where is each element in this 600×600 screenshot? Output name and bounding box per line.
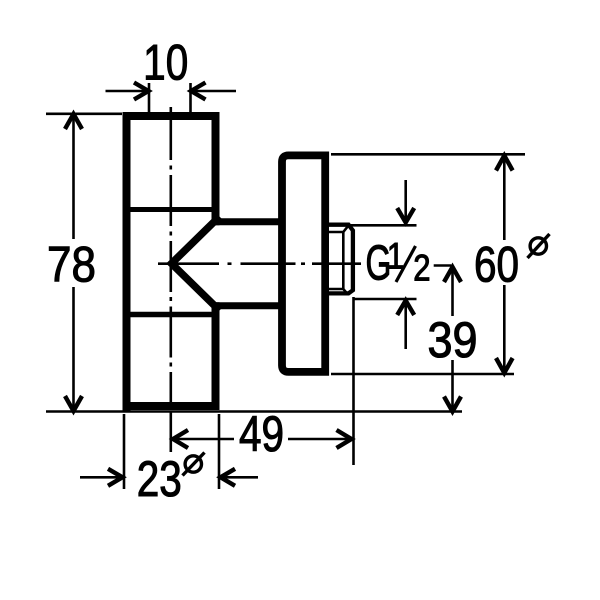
lower partition line — [123, 312, 212, 318]
dimension 10: left arrow — [106, 90, 149, 93]
horizontal centerline — [158, 264, 451, 266]
branch top edge — [212, 218, 284, 225]
dimension 23: right arrow — [221, 476, 259, 479]
thread dimension: bottom extension line — [353, 298, 417, 301]
bottom long extension line — [46, 410, 462, 413]
threaded spigot outline — [329, 225, 353, 294]
valve body right edge lower segment — [212, 302, 220, 410]
valve body right edge upper segment — [212, 112, 220, 225]
flange (rounded rectangle) — [282, 155, 325, 372]
dimension 10: right arrow — [191, 90, 236, 93]
thread root vertical — [342, 232, 345, 289]
svg-text:60: 60 — [474, 236, 519, 292]
dimension 23: left arrow — [80, 476, 123, 479]
thread dimension: top extension line — [350, 224, 417, 227]
dimension 23: extension lines — [123, 414, 126, 489]
dimension 78: top arrow — [65, 114, 82, 129]
dimension 60: extension lines — [331, 153, 525, 156]
upper partition line — [123, 207, 212, 212]
dimension 78: bottom arrow — [65, 396, 82, 411]
dimension 49: left arrow — [173, 430, 188, 448]
dimension 78: dimension line — [72, 116, 75, 239]
dimension 23: diameter symbol — [185, 456, 201, 472]
thread root line top — [329, 226, 348, 232]
dimension 60: bottom arrow — [496, 358, 513, 373]
dimension 78: extension lines — [46, 113, 122, 116]
dimension 60: diameter symbol — [530, 238, 546, 254]
thread dimension: up arrow — [404, 301, 407, 349]
valve body left edge — [123, 112, 131, 411]
valve body top edge — [123, 112, 220, 120]
dimension 39: top arrow — [444, 267, 461, 282]
valve body bottom edge — [123, 402, 220, 410]
vertical centerline — [170, 107, 173, 452]
dimension 60: dimension line — [503, 157, 506, 240]
dimension 10: extension lines — [148, 83, 151, 114]
thread root line bottom — [329, 289, 348, 294]
dimension 39: dimension line — [451, 269, 454, 317]
dimension 49: dimension line — [173, 438, 234, 441]
thread dimension: down arrow — [404, 180, 407, 222]
svg-text:23: 23 — [137, 451, 182, 507]
svg-text:78: 78 — [47, 236, 96, 292]
dimension 39: bottom arrow — [444, 397, 461, 412]
svg-text:2: 2 — [413, 248, 430, 289]
svg-text:39: 39 — [427, 313, 477, 369]
svg-text:10: 10 — [143, 34, 188, 90]
dimension 49: right arrow — [337, 430, 352, 448]
valve seat chevron — [172, 217, 220, 311]
dimension 60: top arrow — [496, 156, 513, 171]
dimension 49: right extension line — [352, 297, 355, 465]
branch bottom edge — [212, 302, 284, 309]
svg-text:49: 49 — [239, 406, 284, 462]
